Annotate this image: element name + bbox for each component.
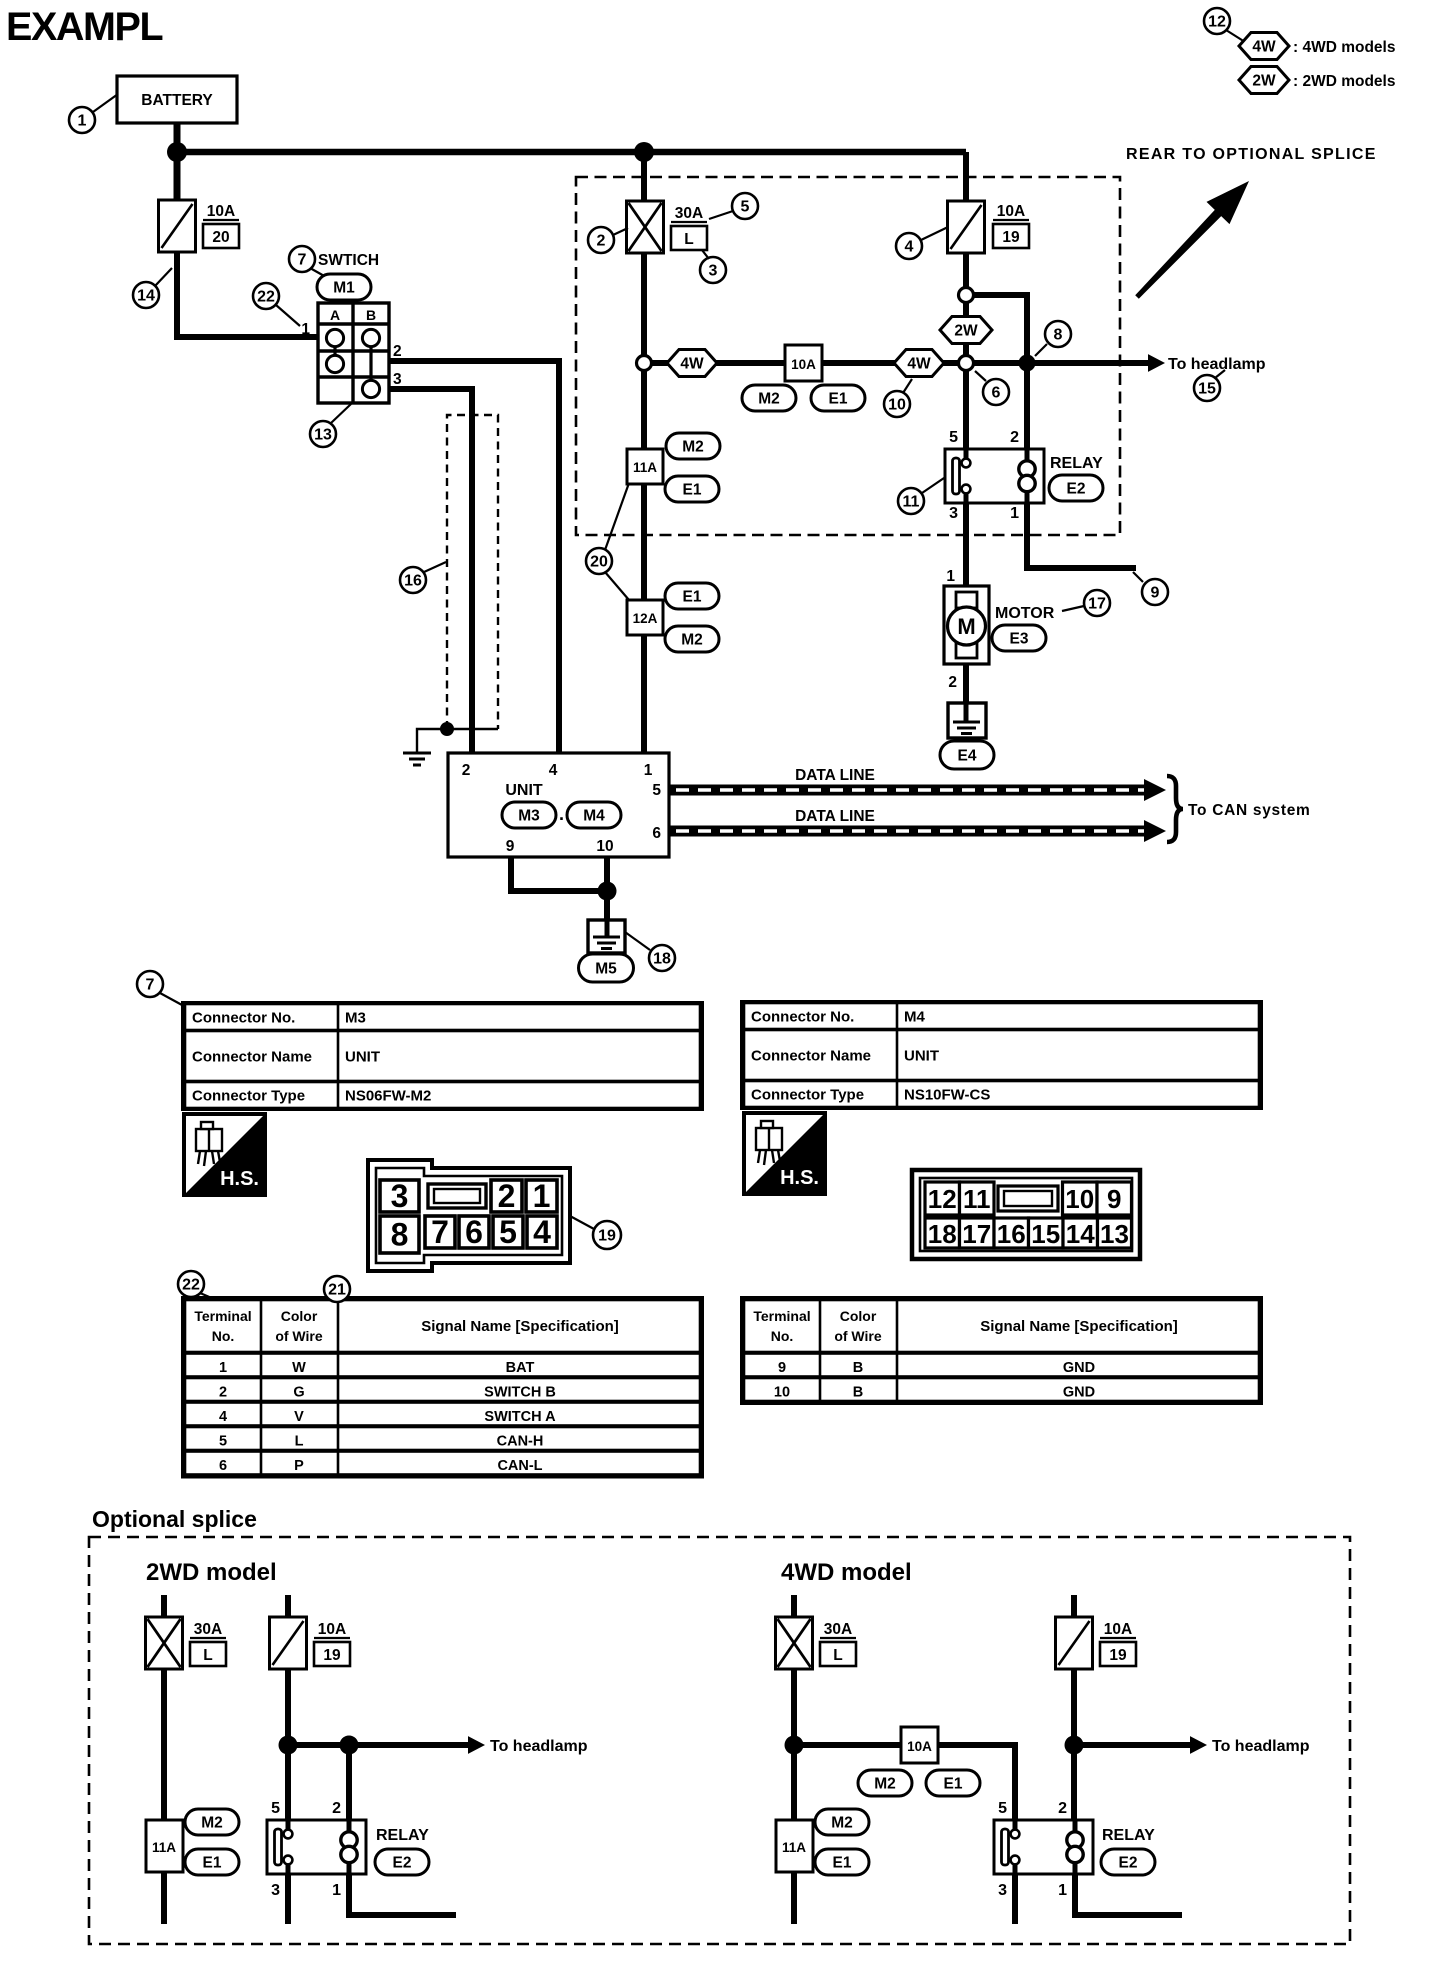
connector table M4 (742, 1002, 1261, 1108)
connector code M4 in unit (567, 802, 621, 828)
svg-text:30A: 30A (194, 1621, 222, 1638)
svg-text:5: 5 (998, 1800, 1007, 1817)
svg-text:2: 2 (1010, 429, 1019, 446)
svg-text:CAN-H: CAN-H (497, 1434, 544, 1450)
svg-text:2: 2 (393, 343, 402, 360)
svg-text:B: B (853, 1360, 863, 1376)
svg-text:6: 6 (465, 1214, 483, 1250)
wire relay pin 3 to motor pin 1 (963, 503, 969, 586)
splice 2WD wire 30A column (161, 1595, 167, 1924)
splice 4WD code M2 row (858, 1770, 912, 1796)
svg-text:SWITCH B: SWITCH B (484, 1385, 556, 1401)
svg-text:4W: 4W (680, 356, 704, 373)
wire 4W branch row (644, 360, 966, 366)
splice 2WD label 30A L (190, 1621, 226, 1666)
svg-text:G: G (293, 1385, 304, 1401)
node on center column (637, 356, 652, 371)
callout 10 (884, 391, 910, 417)
splice 4WD code E1 row (926, 1770, 980, 1796)
option tag 2W main (940, 317, 992, 344)
svg-text:MOTOR: MOTOR (995, 605, 1055, 622)
splice 4WD wire relay pin1 tail (1075, 1874, 1182, 1915)
svg-text:20: 20 (212, 229, 229, 246)
data line wire 1 (669, 779, 1166, 801)
svg-text:16: 16 (997, 1219, 1026, 1249)
callout 22 (178, 1271, 204, 1297)
splice 2WD code M2 11A (185, 1809, 239, 1835)
svg-text:1: 1 (332, 1882, 341, 1899)
svg-text:2: 2 (597, 233, 606, 250)
splice 4WD label 30A L (820, 1621, 856, 1666)
splice 4WD label 10A 19 (1100, 1621, 1136, 1666)
callout 20 (586, 548, 612, 574)
svg-text:1: 1 (1058, 1882, 1067, 1899)
svg-text:E2: E2 (1067, 481, 1086, 498)
svg-text:4WD model: 4WD model (781, 1559, 912, 1586)
svg-text:5: 5 (652, 782, 661, 799)
wire switch pin 2 to unit pin 4 (389, 361, 559, 757)
svg-text:21: 21 (328, 1282, 346, 1299)
wire relay pin 1 tail (1027, 503, 1136, 568)
node above 2W tag (959, 288, 974, 303)
svg-text:7: 7 (298, 252, 307, 269)
svg-text:E2: E2 (393, 1855, 412, 1872)
svg-text:No.: No. (212, 1328, 235, 1344)
svg-text:Connector Name: Connector Name (192, 1049, 312, 1066)
fusible link FL2 label 30A L (671, 205, 707, 250)
svg-text:1: 1 (78, 113, 87, 130)
callout 16 (400, 567, 426, 593)
svg-text:10A: 10A (1104, 1621, 1132, 1638)
svg-text:.: . (559, 804, 564, 824)
splice 4WD junction right (1065, 1736, 1084, 1755)
svg-text:10: 10 (774, 1385, 790, 1401)
svg-text:BATTERY: BATTERY (141, 92, 213, 109)
callout 11 (898, 488, 924, 514)
svg-text:E3: E3 (1010, 631, 1029, 648)
svg-text:Color: Color (840, 1308, 877, 1324)
svg-text:17: 17 (1088, 596, 1106, 613)
splice 4WD wire relay pin3 down (1012, 1874, 1018, 1924)
svg-text:Connector Name: Connector Name (751, 1048, 871, 1065)
wire battery to fuse 14 (174, 123, 181, 200)
splice 4WD connector box 11A (776, 1820, 813, 1872)
splice 2WD wire to relay pin 2 (346, 1745, 352, 1820)
wire unit pin 9 to junction (511, 857, 607, 891)
connector box 11A (627, 449, 663, 484)
svg-text:UNIT: UNIT (505, 782, 543, 799)
svg-text:3: 3 (709, 263, 718, 280)
svg-text:7: 7 (146, 977, 155, 994)
junction shield drain (440, 722, 454, 736)
svg-text:UNIT: UNIT (345, 1049, 380, 1066)
svg-text:5: 5 (219, 1434, 227, 1450)
svg-text:Signal Name [Specification]: Signal Name [Specification] (421, 1318, 619, 1335)
svg-text:6: 6 (219, 1458, 227, 1474)
H.S. icon left (184, 1114, 265, 1195)
connector code M5 (579, 954, 634, 982)
svg-text:Connector Type: Connector Type (192, 1088, 305, 1105)
splice 4WD wire 10A box to relay pin 5 (938, 1745, 1015, 1820)
fuse F4 10A (948, 201, 985, 253)
motor MT1 (944, 586, 989, 664)
svg-text:8: 8 (391, 1217, 409, 1253)
svg-text:L: L (684, 231, 693, 248)
splice 4WD wire 10A fuse column (1071, 1595, 1077, 1745)
optional splice dashed box (89, 1537, 1350, 1944)
callout 19 (593, 1221, 621, 1249)
connector code E4 (940, 741, 994, 769)
fuse F14 label 10A 20 (203, 203, 239, 248)
svg-text:15: 15 (1031, 1219, 1060, 1249)
splice 2WD junction 1 (279, 1736, 298, 1755)
svg-text:Color: Color (281, 1308, 318, 1324)
callout 8 (1045, 321, 1071, 347)
svg-text:12: 12 (1208, 14, 1226, 31)
svg-text:H.S.: H.S. (780, 1167, 819, 1189)
svg-text:SWITCH A: SWITCH A (484, 1409, 556, 1425)
svg-text:Connector No.: Connector No. (192, 1010, 295, 1027)
splice 4WD relay (994, 1820, 1093, 1874)
splice 4WD fusible link 30A (776, 1617, 813, 1669)
splice 4WD wire fuse to relay pin 2 (1071, 1745, 1077, 1820)
callout 12 (1204, 8, 1230, 34)
callout 7 (137, 971, 163, 997)
svg-text:M3: M3 (518, 808, 540, 825)
svg-text:Connector No.: Connector No. (751, 1009, 854, 1026)
svg-text:M2: M2 (682, 439, 704, 456)
svg-text:No.: No. (771, 1328, 794, 1344)
svg-text:: 2WD models: : 2WD models (1293, 73, 1395, 90)
svg-text:RELAY: RELAY (1050, 455, 1103, 472)
connector code E2 main (1049, 475, 1103, 501)
callout 9 (1142, 579, 1168, 605)
callout 6 (983, 379, 1009, 405)
splice 2WD code E2 (375, 1849, 429, 1875)
svg-text:V: V (294, 1409, 304, 1425)
svg-text:17: 17 (962, 1219, 991, 1249)
svg-text:10A: 10A (207, 203, 235, 220)
svg-text:A: A (330, 307, 340, 323)
svg-text:M: M (957, 614, 975, 639)
svg-text:10A: 10A (791, 357, 816, 372)
svg-text:1: 1 (946, 568, 955, 585)
svg-text:Terminal: Terminal (194, 1308, 251, 1324)
unit U1 box (448, 753, 669, 857)
callout 15 (1194, 375, 1220, 401)
wire switch pin 3 to unit pin 2 (389, 389, 472, 757)
svg-text:4: 4 (549, 762, 558, 779)
svg-text:Optional splice: Optional splice (92, 1506, 257, 1532)
svg-text:: 4WD models: : 4WD models (1293, 39, 1395, 56)
svg-text:2WD model: 2WD model (146, 1559, 277, 1586)
splice 2WD wire 10A fuse column (285, 1595, 291, 1745)
splice 2WD code E1 11A (185, 1849, 239, 1875)
svg-text:RELAY: RELAY (376, 1827, 429, 1844)
svg-text:DATA LINE: DATA LINE (795, 767, 875, 784)
callout 1 (69, 107, 95, 133)
splice 4WD wire 30A column (791, 1595, 797, 1924)
svg-text:RELAY: RELAY (1102, 1827, 1155, 1844)
svg-text:11A: 11A (633, 460, 657, 475)
callout 5 (732, 193, 758, 219)
connector face M3 (368, 1160, 570, 1271)
svg-text:E1: E1 (833, 1855, 852, 1872)
splice 2WD junction 2 (340, 1736, 359, 1755)
callout 18 (649, 945, 675, 971)
relay RY1 (945, 449, 1044, 503)
splice 4WD wire to headlamp (1074, 1742, 1190, 1748)
splice 4WD code E2 (1101, 1849, 1155, 1875)
svg-text:9: 9 (1151, 585, 1160, 602)
wire motor pin 2 to ground E4 (963, 664, 969, 703)
connector code E1 12A (665, 583, 719, 609)
svg-text:To headlamp: To headlamp (1212, 1738, 1310, 1755)
wire fuse 14 to switch pin 1 (177, 252, 322, 337)
svg-text:M4: M4 (904, 1009, 925, 1026)
svg-text:3: 3 (393, 371, 402, 388)
svg-text:of Wire: of Wire (275, 1328, 323, 1344)
junction battery bus left (167, 142, 187, 162)
svg-text:4W: 4W (907, 356, 931, 373)
junction battery bus mid (634, 142, 654, 162)
svg-text:13: 13 (1100, 1219, 1129, 1249)
splice 2WD label 10A 19 (314, 1621, 350, 1666)
legend 4W tag (1239, 33, 1289, 60)
svg-text:19: 19 (1002, 229, 1020, 246)
connector code M2 row (742, 385, 796, 411)
svg-text:1: 1 (533, 1178, 551, 1214)
svg-text:Terminal: Terminal (753, 1308, 810, 1324)
svg-text:B: B (366, 307, 376, 323)
fuse F10A inline box (785, 345, 822, 381)
svg-text:M3: M3 (345, 1010, 366, 1027)
callout 14 (133, 282, 159, 308)
svg-text:6: 6 (652, 825, 661, 842)
big arrow to optional splice (1135, 181, 1249, 299)
svg-text:9: 9 (778, 1360, 786, 1376)
svg-text:16: 16 (404, 573, 422, 590)
svg-text:1: 1 (1010, 505, 1019, 522)
svg-text:M2: M2 (831, 1815, 853, 1832)
svg-text:2W: 2W (1252, 73, 1276, 90)
svg-text:NS10FW-CS: NS10FW-CS (904, 1087, 990, 1104)
terminal table M4 (742, 1298, 1261, 1403)
svg-text:10: 10 (888, 397, 906, 414)
svg-text:7: 7 (431, 1214, 449, 1250)
connector code E1 11A (665, 476, 719, 502)
ground G3 unit (boxed) (588, 920, 625, 953)
svg-text:2W: 2W (954, 323, 978, 340)
svg-text:4: 4 (219, 1409, 227, 1425)
svg-text:30A: 30A (824, 1621, 852, 1638)
svg-text:5: 5 (271, 1800, 280, 1817)
svg-text:UNIT: UNIT (904, 1048, 939, 1065)
svg-text:W: W (292, 1360, 306, 1376)
svg-text:of Wire: of Wire (834, 1328, 882, 1344)
connector code M3 in unit (502, 802, 556, 828)
svg-text:10A: 10A (997, 203, 1025, 220)
svg-text:4W: 4W (1252, 39, 1276, 56)
callout 2 (588, 227, 614, 253)
svg-text:To headlamp: To headlamp (490, 1738, 588, 1755)
data line wire 2 (669, 820, 1166, 842)
legend 2W tag (1239, 67, 1289, 94)
splice 4WD fuse 10A 19 (1056, 1617, 1093, 1669)
svg-text:BAT: BAT (506, 1360, 535, 1376)
svg-text:10A: 10A (907, 1739, 932, 1754)
splice 4WD junction left (785, 1736, 804, 1755)
option tag 4W left (667, 350, 717, 377)
wire bus to fuse 4 down to relay pin 5 (963, 152, 969, 449)
splice 2WD fuse 10A (270, 1617, 307, 1669)
junction unit grounds (598, 882, 617, 901)
svg-text:1: 1 (644, 762, 653, 779)
svg-text:EXAMPL: EXAMPL (6, 5, 162, 49)
svg-text:DATA LINE: DATA LINE (795, 808, 875, 825)
svg-text:E4: E4 (958, 748, 977, 765)
callout 13 (310, 421, 336, 447)
splice 2WD relay (267, 1820, 366, 1874)
svg-text:22: 22 (257, 289, 275, 306)
svg-text:9: 9 (1107, 1184, 1121, 1214)
svg-text:6: 6 (992, 385, 1001, 402)
splice 2WD fusible link 30A (146, 1617, 183, 1669)
svg-text:2: 2 (1058, 1800, 1067, 1817)
svg-text:NS06FW-M2: NS06FW-M2 (345, 1088, 431, 1105)
svg-text:M2: M2 (758, 391, 780, 408)
battery B1 (117, 76, 237, 123)
fuse F4 label 10A 19 (993, 203, 1029, 248)
svg-text:M1: M1 (333, 280, 355, 297)
svg-text:Signal Name [Specification]: Signal Name [Specification] (980, 1318, 1178, 1335)
svg-text:10: 10 (596, 838, 613, 855)
splice 2WD wire to relay pin 5 (285, 1745, 291, 1820)
svg-text:GND: GND (1063, 1360, 1095, 1376)
svg-text:To headlamp: To headlamp (1168, 356, 1266, 373)
callout 22 (253, 283, 279, 309)
splice 4WD code M2 11A (815, 1809, 869, 1835)
svg-text:19: 19 (323, 1647, 341, 1664)
svg-text:5: 5 (741, 199, 750, 216)
svg-text:3: 3 (391, 1178, 409, 1214)
svg-text:GND: GND (1063, 1385, 1095, 1401)
svg-text:3: 3 (271, 1882, 280, 1899)
svg-text:Connector Type: Connector Type (751, 1087, 864, 1104)
svg-text:L: L (295, 1434, 304, 1450)
splice 4WD wire left to 10A box (794, 1742, 901, 1748)
fuse F14 10A (159, 200, 196, 252)
svg-text:5: 5 (949, 429, 958, 446)
connector face M4 (912, 1170, 1140, 1259)
junction headlamp branch (1019, 355, 1036, 372)
splice 2WD wire junction row (288, 1742, 349, 1748)
svg-text:M2: M2 (201, 1815, 223, 1832)
svg-text:To CAN system: To CAN system (1188, 802, 1311, 819)
connector code M2 11A (666, 433, 720, 459)
svg-text:11A: 11A (152, 1840, 176, 1855)
switch SW1 body (318, 303, 389, 403)
svg-text:M2: M2 (681, 632, 703, 649)
connector code E3 (992, 625, 1046, 651)
wire unit pin 10 to ground M5 (604, 857, 610, 920)
option tag 4W right (894, 350, 944, 377)
svg-text:18: 18 (928, 1219, 957, 1249)
harness dashed box (576, 177, 1120, 535)
shield dashed box (447, 415, 498, 729)
splice 2WD wire relay pin3 down (285, 1874, 291, 1924)
svg-text:12A: 12A (633, 611, 658, 626)
connector code M2 12A (665, 626, 719, 652)
svg-text:22: 22 (182, 1277, 200, 1294)
wire 12A to unit pin 1 (641, 635, 647, 757)
svg-text:2: 2 (462, 762, 471, 779)
svg-text:P: P (294, 1458, 304, 1474)
svg-text:2: 2 (948, 674, 957, 691)
callout 7 (289, 246, 315, 272)
svg-text:L: L (203, 1647, 212, 1664)
callout 3 (700, 257, 726, 283)
node on fuse4 column (959, 356, 974, 371)
svg-text:B: B (853, 1385, 863, 1401)
svg-text:E2: E2 (1119, 1855, 1138, 1872)
svg-text:2: 2 (332, 1800, 341, 1817)
terminal table M3 (183, 1298, 702, 1477)
fusible link FL2 30A (627, 201, 664, 253)
svg-text:8: 8 (1054, 327, 1063, 344)
svg-text:3: 3 (949, 505, 958, 522)
svg-text:L: L (833, 1647, 842, 1664)
callout 17 (1084, 590, 1110, 616)
H.S. icon right (744, 1113, 825, 1194)
svg-text:13: 13 (314, 427, 332, 444)
svg-text:18: 18 (653, 951, 671, 968)
svg-text:M5: M5 (595, 961, 617, 978)
svg-text:10A: 10A (318, 1621, 346, 1638)
svg-text:2: 2 (498, 1178, 516, 1214)
svg-text:3: 3 (998, 1882, 1007, 1899)
connector code M1 (317, 274, 371, 300)
svg-text:5: 5 (499, 1214, 517, 1250)
wire bus to fusible link 2 down to 12A (641, 152, 647, 600)
svg-text:E1: E1 (683, 482, 702, 499)
svg-text:9: 9 (506, 838, 515, 855)
splice 4WD code E1 11A (815, 1849, 869, 1875)
svg-text:1: 1 (219, 1360, 227, 1376)
svg-text:10: 10 (1065, 1184, 1094, 1214)
svg-text:11A: 11A (782, 1840, 806, 1855)
svg-text:20: 20 (590, 554, 608, 571)
brace to CAN (1167, 776, 1183, 842)
arrowhead to headlamp (1148, 354, 1165, 372)
splice 2WD wire relay pin1 tail (349, 1874, 456, 1915)
splice 2WD wire to headlamp (349, 1742, 469, 1748)
splice 2WD arrowhead headlamp (468, 1736, 485, 1754)
ground G1 (switch shield) (403, 753, 431, 765)
svg-text:E1: E1 (829, 391, 848, 408)
wire to headlamp (966, 360, 1148, 366)
callout 21 (324, 1276, 350, 1302)
svg-text:M4: M4 (583, 808, 605, 825)
svg-text:15: 15 (1198, 381, 1216, 398)
svg-text:19: 19 (598, 1228, 616, 1245)
svg-text:E1: E1 (683, 589, 702, 606)
svg-text:4: 4 (905, 239, 914, 256)
svg-text:1: 1 (301, 321, 310, 338)
svg-text:REAR TO OPTIONAL SPLICE: REAR TO OPTIONAL SPLICE (1126, 146, 1377, 163)
svg-text:11: 11 (903, 494, 920, 511)
splice 2WD connector box 11A (146, 1820, 183, 1872)
